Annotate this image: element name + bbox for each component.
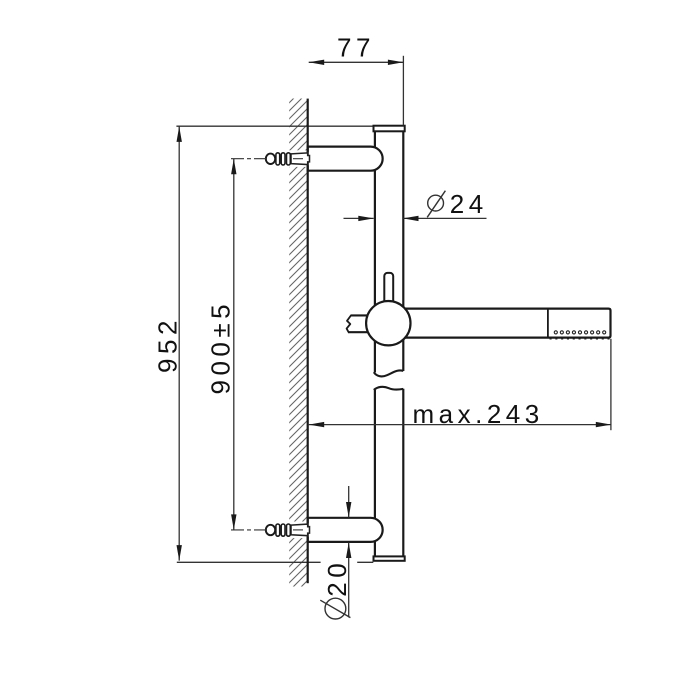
svg-text:24: 24 [450,189,488,219]
svg-text:20: 20 [322,559,352,597]
svg-text:max.243: max.243 [413,399,544,429]
svg-text:952: 952 [152,316,182,373]
svg-text:77: 77 [337,33,375,63]
svg-text:900±5: 900±5 [205,300,235,395]
